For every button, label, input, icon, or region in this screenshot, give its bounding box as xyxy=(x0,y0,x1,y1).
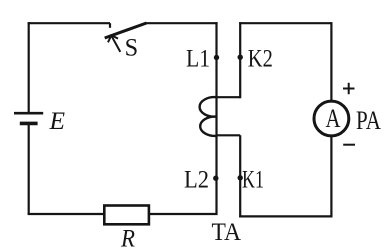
node L2 junction dot xyxy=(213,176,218,181)
wire: coil top lead to K2 xyxy=(217,96,241,98)
svg-text:TA: TA xyxy=(212,217,242,246)
wire: coil bottom lead to K1 xyxy=(217,134,241,136)
svg-text:R: R xyxy=(120,224,135,251)
switch S arrowhead xyxy=(108,35,118,42)
wire: top horizontal to switch contact xyxy=(28,22,110,24)
svg-text:K2: K2 xyxy=(248,43,273,72)
transformer TA secondary coil xyxy=(200,97,217,136)
wire: bottom horizontal (resistor to L2) xyxy=(150,213,218,215)
battery E long plate xyxy=(14,112,43,115)
svg-text:S: S xyxy=(125,32,139,61)
wire: K2 vertical up xyxy=(239,22,241,98)
svg-text:K1: K1 xyxy=(242,165,264,194)
svg-text:L2: L2 xyxy=(184,165,209,194)
wire: right vertical down to ammeter xyxy=(330,22,332,101)
wire: left vertical (battery branch upper) xyxy=(28,22,30,112)
polarity minus sign xyxy=(343,144,355,146)
node L1 junction dot xyxy=(214,55,219,60)
svg-text:E: E xyxy=(49,106,66,135)
resistor R body xyxy=(104,206,149,225)
wire: ammeter to bottom right corner xyxy=(330,137,332,218)
battery E short thick plate xyxy=(20,122,38,126)
svg-text:L1: L1 xyxy=(186,43,210,72)
wire: bottom right horizontal xyxy=(239,215,332,217)
switch S blade xyxy=(105,23,147,38)
ammeter PA circle xyxy=(314,101,349,136)
wire: top horizontal from switch to L1 branch xyxy=(145,22,218,24)
node K2 junction dot xyxy=(238,55,243,60)
node K1 junction dot xyxy=(238,175,243,180)
switch S arrow shaft xyxy=(112,37,120,52)
wire: K1 vertical up xyxy=(239,135,241,217)
svg-text:A: A xyxy=(326,103,341,133)
switch S fixed contact tick xyxy=(109,23,111,28)
wire: top right horizontal to ammeter xyxy=(239,22,331,24)
wire: bottom horizontal (main loop, battery to resistor) xyxy=(28,213,103,215)
polarity plus sign xyxy=(343,83,355,94)
wire: left vertical (battery branch lower) xyxy=(28,124,30,215)
svg-text:PA: PA xyxy=(356,106,381,135)
transformer TA primary wire L1-L2 xyxy=(215,22,217,213)
